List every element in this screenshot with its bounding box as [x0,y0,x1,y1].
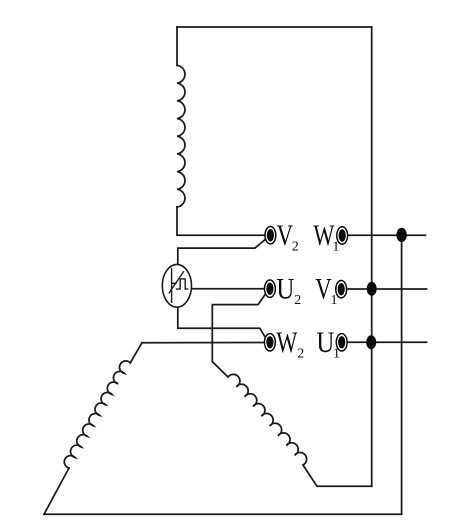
svg-text:V: V [315,273,332,306]
terminal U2 [265,280,276,297]
wire: V1 row horizontal to the right [341,288,426,290]
label W2 [276,326,304,361]
label V2 [277,219,299,254]
label W1 [313,219,339,254]
svg-text:2: 2 [294,293,301,308]
junction: U1 bus node [366,335,376,349]
label V1 [315,273,337,308]
wire: top side of main loop [177,26,372,28]
terminal W1 [337,227,348,244]
terminal W2 [265,334,276,351]
wire: left side upper segment of main loop [176,27,178,65]
svg-text:1: 1 [333,347,340,362]
junction: W1 bus node [396,228,406,242]
svg-text:1: 1 [331,293,338,308]
terminal U1 [336,334,347,351]
wire: outer right vertical from W1 junction down to bottom [401,235,403,514]
label U1 [316,326,340,361]
wire: middle winding tail to right bus [303,465,372,486]
wire: right bus vertical (main loop right side down to middle winding) [371,27,373,486]
wire: thermal protector bottom lead to terminal W2 [178,307,267,339]
svg-text:U: U [276,273,294,306]
wire: U1 row horizontal to the right [342,341,427,343]
svg-text:V: V [277,219,294,252]
wire: bottom horizontal [44,513,402,515]
wire: left winding top straight segment [130,343,142,363]
winding L2 (stator phase coil, left diagonal) [64,361,130,468]
wire: terminal W2 lead left to left winding [142,342,265,344]
thermal protector P1 (circle symbol) [162,264,191,307]
junction: V1 bus node [367,282,377,296]
wire: W1 row horizontal to the right [342,234,425,236]
svg-text:2: 2 [292,240,299,255]
label U2 [276,273,301,308]
terminal V2 [265,227,276,244]
winding L1 (stator phase coil, vertical) [177,65,185,207]
wire: left side lower segment down to V2 row [177,207,266,235]
wire: terminal U2 lead down-left into middle winding [212,293,266,377]
svg-text:2: 2 [297,347,304,362]
svg-text:1: 1 [332,240,339,255]
terminal V1 [336,281,347,298]
wire: left winding bottom straight segment [44,468,69,514]
svg-text:W: W [276,326,297,359]
svg-text:U: U [316,326,334,359]
wire: thermal protector right lead to terminal U2 [192,288,265,290]
wire: thermal protector top lead to terminal V2 [178,239,266,265]
winding L3 (stator phase coil, middle diagonal) [228,374,307,465]
